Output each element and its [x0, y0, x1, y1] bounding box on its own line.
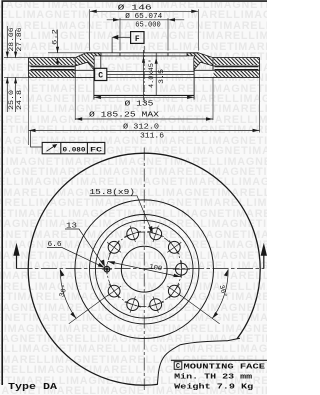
svg-text:65.000: 65.000: [135, 21, 161, 29]
friction ring right - top plate hatch: [214, 58, 259, 65]
info box datum C reference: [174, 362, 182, 371]
label Type DA: [8, 381, 58, 392]
circle Ø185.25: [75, 200, 214, 339]
svg-text:6.2: 6.2: [51, 29, 59, 45]
center bore circle Ø65: [121, 246, 167, 292]
section arrow left: [13, 243, 19, 269]
svg-text:100: 100: [149, 263, 163, 272]
angle dimension 36 deg left: [58, 269, 109, 324]
dimension Ø100 bolt circle (diagonal through centre): [108, 261, 181, 277]
info box text MOUNTING FACE: [184, 363, 266, 371]
bolt hole at 288 deg: [148, 296, 164, 312]
circle Ø146: [90, 215, 199, 324]
label 13 with leader to locating hole: [65, 223, 105, 268]
svg-text:FC: FC: [90, 146, 102, 153]
datum box F with leader arrow: [112, 32, 144, 53]
dimension Ø312.0/311.6 (outer diameter): [29, 77, 260, 145]
section arrow right: [261, 243, 267, 269]
dimension Ø185.25 MAX (pad inner diameter): [75, 77, 213, 120]
hat bell bottom edge: [94, 94, 194, 96]
svg-text:C: C: [98, 72, 103, 81]
bolt hole at 0 deg: [173, 261, 190, 278]
svg-text:311.6: 311.6: [140, 132, 164, 140]
locating hole Ø6.6: [102, 264, 112, 274]
svg-text:Type DA: Type DA: [8, 381, 58, 392]
bolt hole at 252 deg: [125, 296, 141, 312]
svg-text:F: F: [135, 35, 140, 44]
outer circle Ø312: [28, 153, 260, 385]
angle dimension 36 deg right: [180, 269, 229, 324]
hat neck right (hatched S-transition): [187, 53, 213, 70]
dimension Ø135 (bell diameter): [94, 96, 194, 109]
svg-text:36°: 36°: [217, 284, 229, 299]
svg-text:MOUNTING FACE: MOUNTING FACE: [184, 363, 266, 371]
friction ring right - outline: [194, 58, 259, 78]
dimension 3.5 chamfer (vertical line + arrow + rotated text): [155, 53, 165, 96]
break-out region (white mask over bottom-right of disc): [157, 338, 267, 395]
bolt hole at 216 deg: [107, 284, 121, 298]
horizontal section cutting line: [17, 268, 264, 270]
friction ring right - bottom plate hatch: [214, 71, 259, 77]
svg-text:Ø 312.0: Ø 312.0: [123, 123, 159, 132]
svg-text:Ø 185.25 MAX: Ø 185.25 MAX: [89, 111, 160, 120]
svg-text:27.86: 27.86: [16, 28, 24, 52]
dimension Ø65.074/65.000 (line, arrows, extensions): [107, 12, 185, 51]
svg-text:24.8: 24.8: [16, 90, 24, 110]
svg-text:3.5: 3.5: [158, 69, 165, 84]
dimension 28.06/27.86 (left, outer thickness): [4, 26, 29, 112]
section centerline (vertical dash-dot): [143, 46, 145, 103]
runout feature control frame 0.080 FC: [31, 130, 105, 153]
svg-text:4.0x45°: 4.0x45°: [148, 59, 155, 88]
bolt hole at 36 deg: [167, 240, 181, 254]
datum box C with stem: [95, 56, 107, 81]
dimension Ø146 (line, arrows, extensions): [90, 4, 199, 51]
svg-text:Ø 65.074: Ø 65.074: [125, 12, 162, 21]
svg-text:Ø 146: Ø 146: [118, 4, 152, 13]
hat bell wall right: [193, 67, 195, 100]
hat bell wall left: [93, 67, 95, 100]
info box text Min. TH 23 mm: [174, 373, 253, 381]
svg-text:Min. TH 23 mm: Min. TH 23 mm: [174, 373, 253, 381]
svg-text:Weight 7.9 Kg: Weight 7.9 Kg: [174, 384, 254, 392]
friction ring left - top plate hatch: [29, 58, 74, 65]
friction ring right - vent channel lines: [215, 67, 259, 70]
bolt hole at 72 deg: [148, 226, 164, 242]
dimension 4.0x45 chamfer (vertical line + arrow + rotated text): [142, 50, 155, 100]
friction ring left - outline: [29, 58, 94, 78]
svg-text:C: C: [176, 363, 180, 371]
info box border (top edge): [171, 359, 267, 361]
bolt hole at 324 deg: [167, 284, 181, 298]
circle Ø135: [95, 220, 193, 318]
hat neck left (hatched S-transition): [75, 53, 101, 70]
dimension 25.0/24.8 (left, disc thickness): [8, 30, 24, 112]
friction ring left - bottom plate hatch: [29, 71, 74, 77]
svg-text:13: 13: [66, 223, 77, 231]
hat bore interior edge lines: [107, 71, 194, 77]
vertical centerline of front view: [143, 148, 145, 391]
bolt hole at 144 deg: [107, 240, 121, 254]
svg-text:0.080: 0.080: [63, 146, 86, 153]
mounting flange plate (top face lines + bore edge ticks): [86, 53, 198, 56]
svg-text:Ø 135: Ø 135: [125, 99, 154, 108]
label 15.8(x9) with leader to bolt hole: [90, 189, 153, 234]
info box text Weight 7.9 Kg: [174, 384, 254, 392]
label 6.6 with leader to locating hole: [47, 241, 105, 268]
bolt circle Ø100 (dash-dot): [107, 232, 181, 306]
dimension 6.2 (flange top to ring top): [48, 29, 86, 65]
svg-text:36°: 36°: [58, 283, 70, 298]
friction ring left - vane hatch: [31, 67, 75, 70]
bolt hole at 108 deg: [125, 226, 141, 242]
